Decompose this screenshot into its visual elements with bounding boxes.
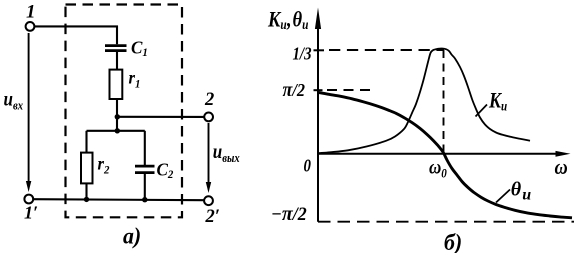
dashed vertical omega0 — [443, 50, 445, 154]
wire parallel top bar — [87, 130, 145, 132]
terminal 2 — [204, 113, 213, 122]
wire to C2 — [144, 131, 146, 165]
capacitor C1 — [105, 46, 127, 51]
svg-text:2: 2 — [204, 90, 214, 110]
Ku curve — [318, 48, 530, 153]
wire node A to terminal 2 — [117, 116, 204, 118]
terminal 1 — [26, 22, 35, 31]
node A junction — [115, 114, 120, 119]
node r2 bottom junction — [84, 197, 89, 202]
bottom wire — [33, 199, 204, 200]
svg-text:б): б) — [444, 229, 462, 253]
wire C2 to bottom — [144, 173, 146, 200]
svg-text:1/3: 1/3 — [293, 44, 312, 63]
node C2 bottom junction — [142, 197, 147, 202]
tick pi/2 — [314, 89, 323, 91]
resistor r1 — [110, 70, 123, 99]
svg-text:1: 1 — [26, 1, 36, 22]
tick 1/3 — [314, 49, 325, 51]
svg-text:ω: ω — [555, 155, 568, 179]
capacitor C2 — [135, 166, 155, 173]
svg-text:1′: 1′ — [24, 203, 38, 223]
terminal 1prime — [24, 195, 33, 204]
theta u label leader — [496, 190, 510, 203]
dashed level -pi/2 — [318, 221, 574, 223]
svg-text:а): а) — [123, 223, 141, 249]
svg-text:2′: 2′ — [205, 207, 220, 227]
wire C1 to r1 — [116, 51, 118, 70]
svg-text:π/2: π/2 — [283, 79, 306, 101]
wire r2 to bottom — [85, 183, 87, 199]
terminal 2prime — [204, 196, 213, 205]
u_vx arrow — [28, 33, 30, 184]
svg-text:0: 0 — [304, 156, 311, 175]
wire terminal1 to C1 — [34, 26, 117, 44]
Ku label leader — [476, 105, 488, 117]
dashed level 1/3 — [329, 49, 444, 51]
u_vyx arrow — [208, 123, 210, 185]
x-axis — [318, 153, 560, 155]
node B junction — [115, 128, 120, 133]
svg-text:−π/2: −π/2 — [271, 203, 307, 225]
dashed level pi/2 — [327, 89, 376, 91]
theta u curve — [318, 92, 573, 218]
resistor r2 — [81, 153, 93, 184]
wire to r2 — [85, 131, 87, 153]
wire r1 to node A — [116, 99, 118, 131]
y-axis — [317, 16, 319, 222]
dashed enclosure box — [66, 5, 183, 218]
